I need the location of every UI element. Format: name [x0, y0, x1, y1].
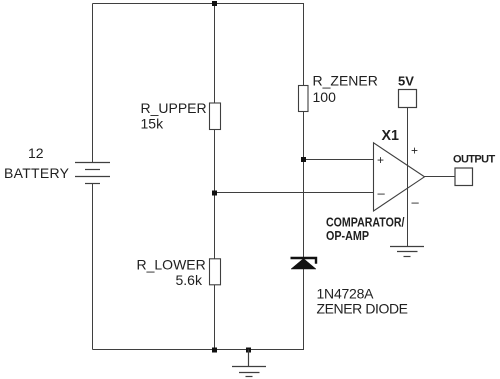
wire R_LOWER bottom lead [214, 285, 216, 350]
wire R_ZENER to zener diode [303, 112, 305, 258]
5V terminal box [399, 90, 417, 108]
svg-text:ZENER DIODE: ZENER DIODE [317, 300, 409, 316]
resistor R_UPPER [210, 103, 221, 130]
svg-text:OUTPUT: OUTPUT [453, 154, 496, 166]
node junction top rail / R_UPPER [212, 1, 217, 6]
ground (op-amp negative supply) [390, 247, 424, 257]
svg-text:1N4728A: 1N4728A [317, 285, 375, 301]
svg-text:12: 12 [28, 145, 44, 161]
svg-text:X1: X1 [382, 127, 400, 144]
wire op-amp minus input [215, 192, 374, 194]
ground (bottom rail) [232, 350, 266, 377]
svg-text:R_UPPER: R_UPPER [141, 100, 207, 116]
svg-text:BATTERY: BATTERY [4, 165, 70, 181]
svg-text:5.6k: 5.6k [176, 272, 203, 288]
svg-text:5V: 5V [398, 74, 414, 89]
wire 5V supply down through op-amp to ground [407, 108, 409, 247]
wire R_UPPER to R_LOWER (divider middle) [214, 130, 216, 259]
resistor R_ZENER [299, 86, 309, 112]
resistor R_LOWER [210, 259, 221, 285]
svg-text:+: + [377, 153, 384, 167]
svg-text:–: – [378, 186, 386, 201]
wire left vertical bottom (battery -) [92, 184, 94, 350]
svg-text:–: – [412, 195, 420, 210]
svg-text:100: 100 [313, 89, 337, 105]
node junction bottom rail / ground [246, 348, 251, 353]
wire R_UPPER top lead [214, 4, 216, 104]
battery 12V [75, 163, 110, 184]
wire top rail [93, 3, 305, 5]
wire R_ZENER top lead [303, 4, 305, 86]
node junction divider middle / minus input [212, 191, 217, 196]
OUTPUT terminal box [455, 168, 473, 186]
zener diode 1N4728A [291, 258, 317, 269]
svg-text:OP-AMP: OP-AMP [326, 228, 369, 243]
svg-text:R_ZENER: R_ZENER [313, 72, 378, 88]
wire op-amp output [425, 176, 456, 178]
wire left vertical top (battery +) [92, 4, 94, 163]
wire op-amp plus input [304, 159, 374, 161]
wire zener diode bottom lead [303, 269, 305, 350]
op-amp X1 [374, 143, 425, 211]
svg-text:+: + [411, 144, 418, 158]
node junction bottom rail / R_LOWER [212, 348, 217, 353]
svg-text:15k: 15k [141, 116, 165, 132]
wire bottom rail [93, 349, 305, 351]
svg-text:R_LOWER: R_LOWER [137, 256, 206, 272]
node junction zener branch / plus input [301, 157, 306, 162]
